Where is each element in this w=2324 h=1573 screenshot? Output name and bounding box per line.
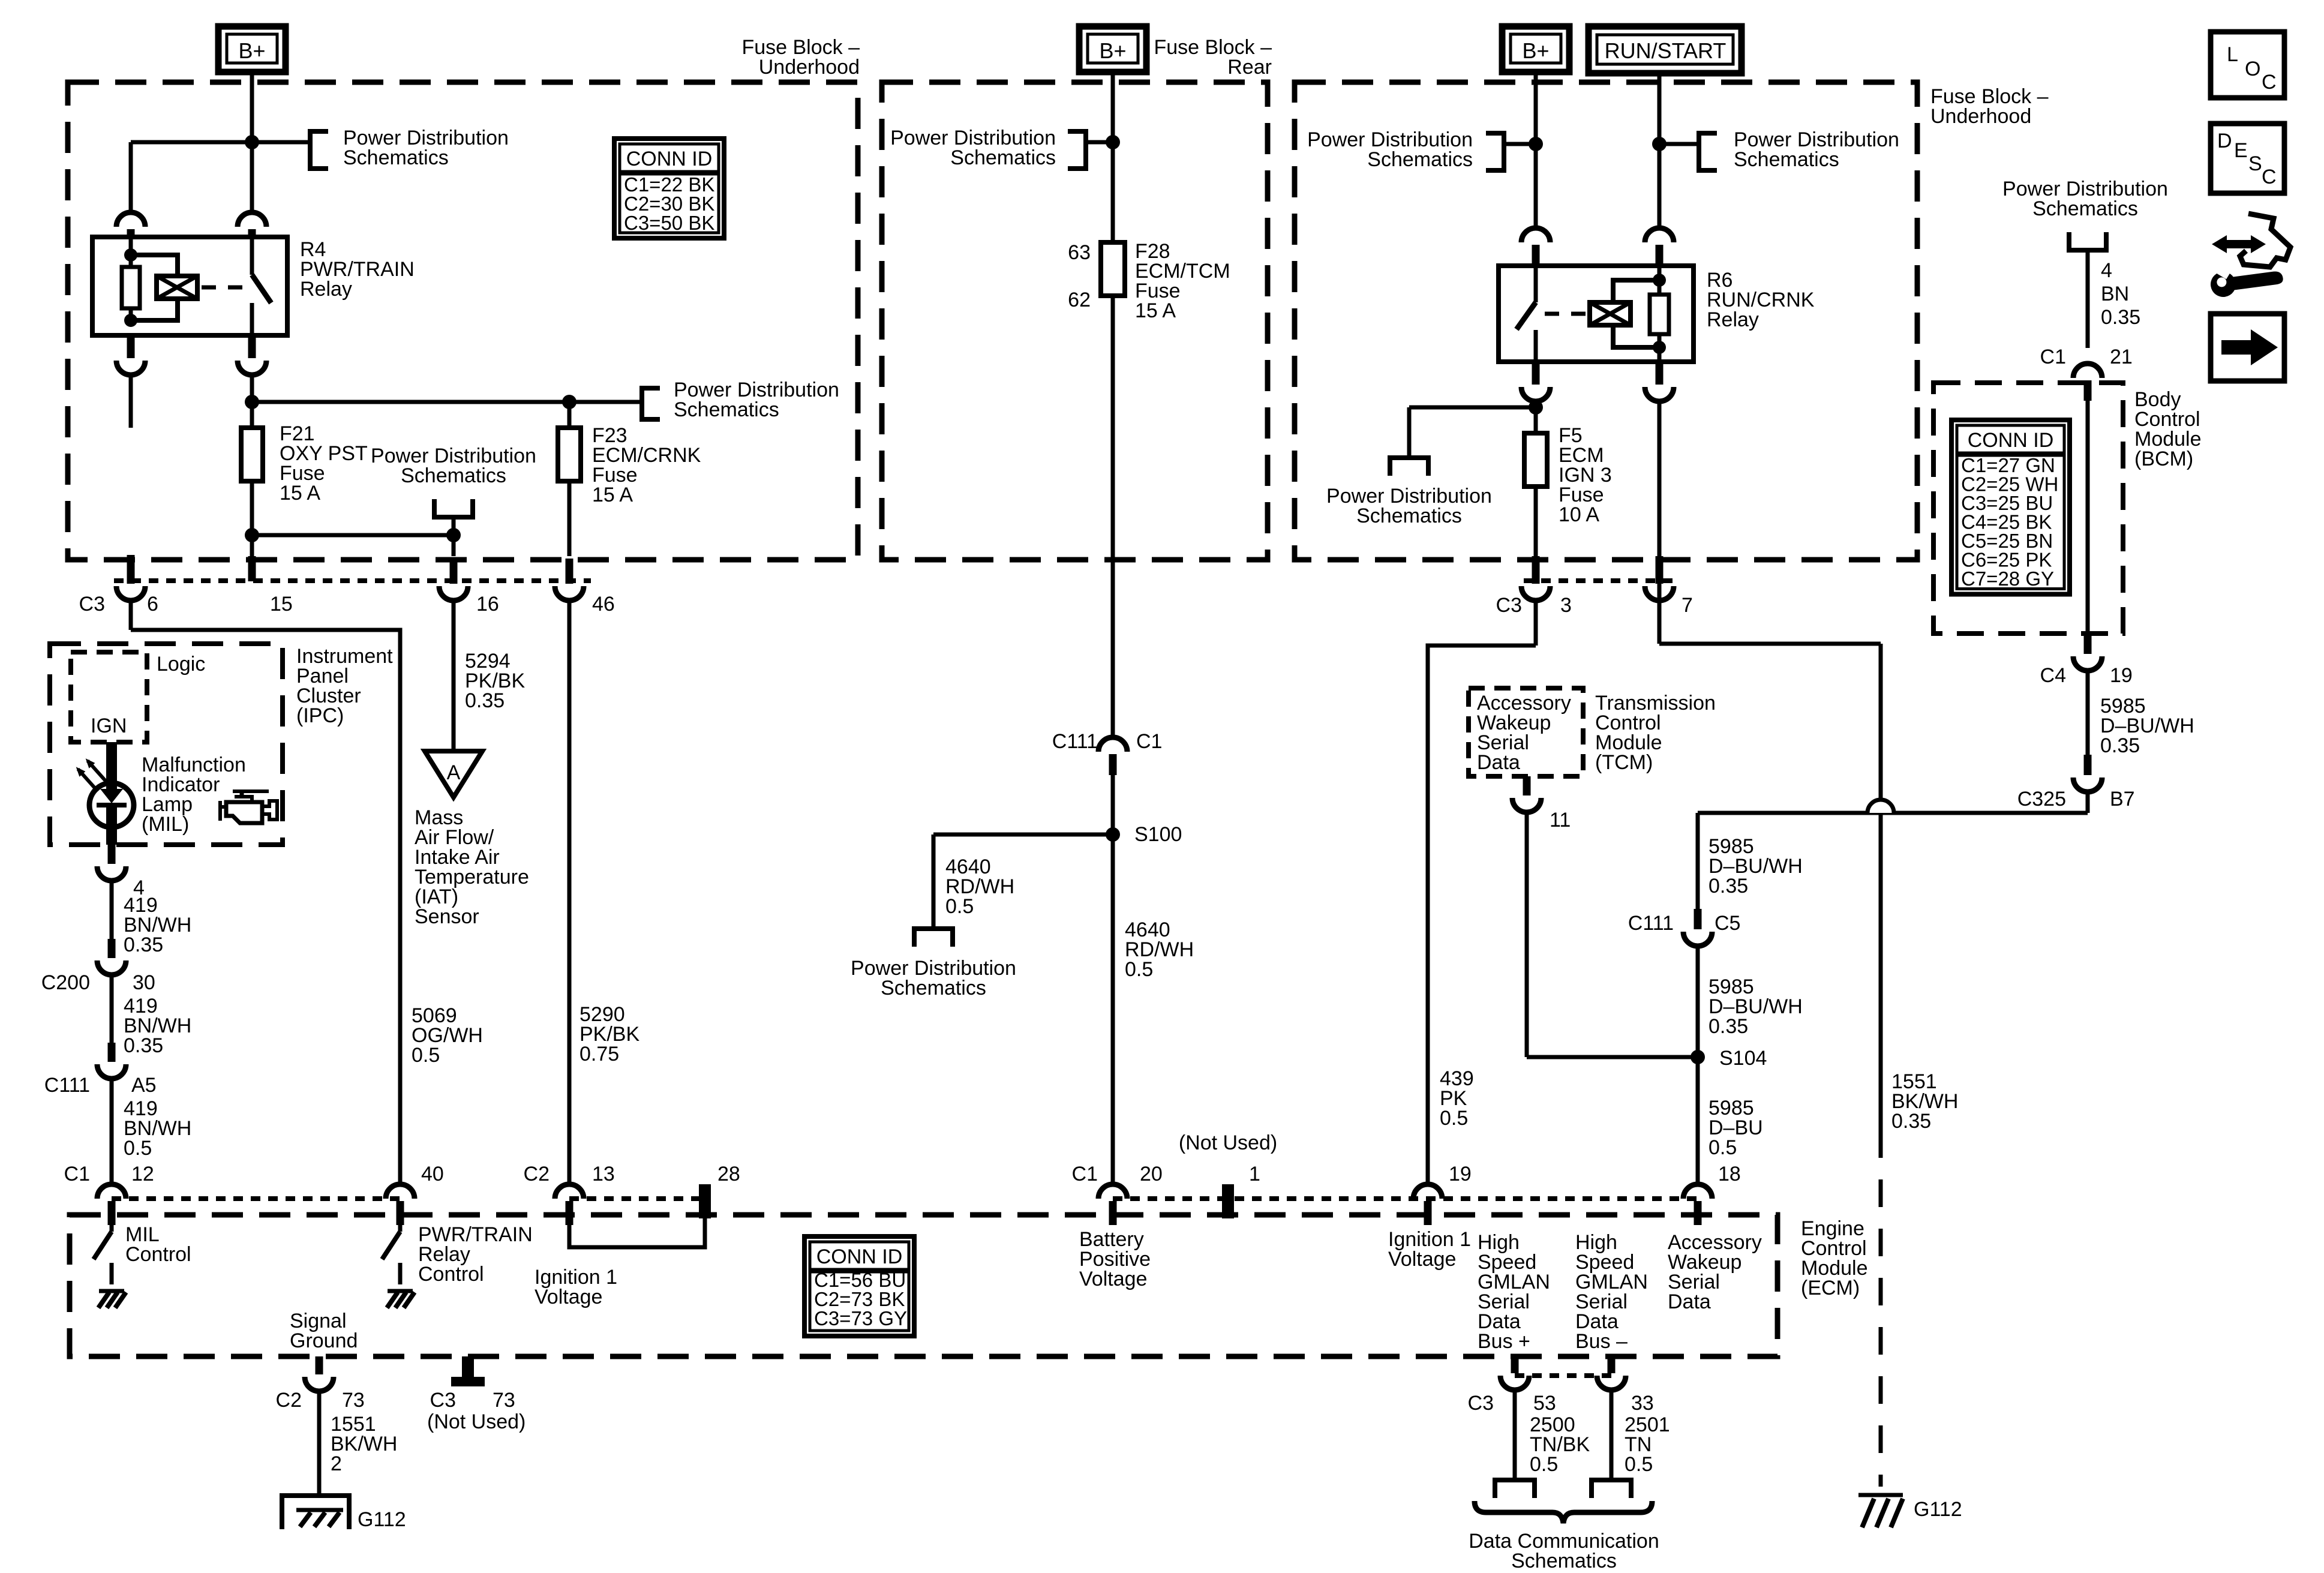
- svg-text:16: 16: [476, 593, 499, 616]
- svg-text:C325: C325: [2017, 788, 2066, 810]
- svg-text:73: 73: [342, 1389, 365, 1412]
- svg-text:11: 11: [1550, 809, 1571, 831]
- svg-text:6: 6: [147, 593, 158, 616]
- svg-text:(ECM): (ECM): [1801, 1277, 1860, 1299]
- svg-text:Bus +: Bus +: [1478, 1330, 1530, 1353]
- svg-text:C1: C1: [1136, 730, 1162, 753]
- svg-text:1: 1: [1249, 1163, 1260, 1185]
- svg-text:53: 53: [1533, 1392, 1556, 1415]
- svg-text:C1: C1: [1072, 1163, 1098, 1185]
- svg-text:B7: B7: [2110, 788, 2135, 810]
- svg-text:7: 7: [1682, 594, 1693, 617]
- svg-text:D: D: [2217, 130, 2232, 152]
- svg-text:Schematics: Schematics: [401, 464, 506, 487]
- svg-text:Data: Data: [1477, 751, 1520, 774]
- svg-text:S104: S104: [1719, 1047, 1767, 1070]
- svg-text:0.35: 0.35: [1891, 1110, 1931, 1133]
- svg-text:(MIL): (MIL): [142, 813, 189, 836]
- svg-text:B+: B+: [238, 38, 265, 63]
- svg-text:Data: Data: [1668, 1290, 1711, 1313]
- svg-text:C111: C111: [44, 1074, 90, 1097]
- svg-text:0.5: 0.5: [412, 1044, 440, 1067]
- svg-text:(TCM): (TCM): [1595, 751, 1653, 774]
- svg-text:0.5: 0.5: [1125, 958, 1153, 981]
- svg-text:G112: G112: [1914, 1498, 1962, 1521]
- svg-text:15: 15: [270, 593, 293, 616]
- svg-text:Logic: Logic: [157, 653, 205, 676]
- svg-text:0.5: 0.5: [1440, 1107, 1468, 1130]
- svg-text:62: 62: [1068, 289, 1091, 311]
- svg-text:C1: C1: [64, 1163, 90, 1185]
- svg-text:C3=73 GY: C3=73 GY: [814, 1307, 907, 1329]
- svg-text:C3: C3: [1468, 1392, 1494, 1415]
- svg-text:Schematics: Schematics: [881, 977, 986, 999]
- svg-text:C3: C3: [430, 1389, 456, 1412]
- svg-text:Underhood: Underhood: [759, 56, 860, 79]
- svg-text:0.35: 0.35: [1709, 875, 1748, 897]
- svg-text:C111: C111: [1628, 912, 1674, 935]
- svg-text:0.5: 0.5: [124, 1137, 152, 1160]
- svg-text:C3=50 BK: C3=50 BK: [624, 212, 714, 234]
- svg-text:IGN: IGN: [91, 715, 127, 737]
- svg-text:Rear: Rear: [1227, 56, 1272, 79]
- svg-text:Schematics: Schematics: [2032, 197, 2138, 220]
- svg-text:0.5: 0.5: [1530, 1453, 1558, 1476]
- svg-text:15 A: 15 A: [1135, 299, 1176, 322]
- svg-text:15 A: 15 A: [592, 484, 633, 506]
- svg-text:12: 12: [131, 1163, 154, 1185]
- svg-text:73: 73: [493, 1389, 515, 1412]
- svg-text:0.75: 0.75: [580, 1043, 619, 1065]
- svg-text:20: 20: [1140, 1163, 1163, 1185]
- svg-text:18: 18: [1718, 1163, 1741, 1185]
- svg-text:Ground: Ground: [290, 1329, 358, 1352]
- svg-text:Control: Control: [418, 1263, 484, 1286]
- svg-text:C: C: [2262, 71, 2277, 94]
- svg-text:0.35: 0.35: [465, 689, 505, 712]
- svg-text:CONN ID: CONN ID: [626, 148, 713, 170]
- svg-text:Relay: Relay: [300, 278, 352, 301]
- svg-text:63: 63: [1068, 241, 1091, 264]
- svg-text:0.5: 0.5: [1709, 1136, 1737, 1159]
- svg-text:28: 28: [717, 1163, 740, 1185]
- svg-text:B+: B+: [1099, 38, 1126, 63]
- svg-text:(Not Used): (Not Used): [1179, 1131, 1277, 1154]
- svg-text:21: 21: [2110, 346, 2133, 368]
- svg-text:Schematics: Schematics: [1511, 1550, 1617, 1572]
- svg-text:BN: BN: [2101, 283, 2129, 305]
- svg-text:0.35: 0.35: [2101, 306, 2140, 329]
- svg-text:30: 30: [133, 971, 155, 994]
- svg-text:19: 19: [1449, 1163, 1472, 1185]
- svg-text:Voltage: Voltage: [1079, 1268, 1147, 1290]
- svg-text:0.35: 0.35: [124, 933, 163, 956]
- svg-text:0.35: 0.35: [124, 1034, 163, 1057]
- svg-text:C: C: [2262, 166, 2277, 188]
- svg-text:Schematics: Schematics: [1734, 148, 1839, 171]
- svg-text:G112: G112: [358, 1508, 406, 1531]
- svg-text:4: 4: [2101, 259, 2112, 282]
- svg-text:33: 33: [1631, 1392, 1654, 1415]
- svg-text:C2: C2: [524, 1163, 550, 1185]
- svg-text:A5: A5: [131, 1074, 157, 1097]
- svg-text:S100: S100: [1134, 823, 1182, 846]
- svg-text:S: S: [2248, 152, 2262, 175]
- svg-text:19: 19: [2110, 664, 2133, 687]
- svg-text:40: 40: [421, 1163, 444, 1185]
- svg-text:3: 3: [1560, 594, 1572, 617]
- svg-text:E: E: [2234, 139, 2248, 162]
- svg-text:RUN/START: RUN/START: [1605, 38, 1727, 63]
- svg-text:Underhood: Underhood: [1930, 105, 2031, 128]
- svg-text:C5: C5: [1715, 912, 1740, 935]
- svg-text:(Not Used): (Not Used): [427, 1410, 526, 1433]
- svg-text:(IPC): (IPC): [296, 704, 344, 727]
- svg-text:0.35: 0.35: [1709, 1015, 1748, 1038]
- svg-text:C3: C3: [1496, 594, 1522, 617]
- svg-text:C200: C200: [41, 971, 90, 994]
- svg-text:C2: C2: [276, 1389, 302, 1412]
- svg-text:0.35: 0.35: [2100, 734, 2140, 757]
- svg-text:Bus –: Bus –: [1575, 1330, 1628, 1353]
- svg-text:(BCM): (BCM): [2134, 448, 2193, 470]
- svg-text:13: 13: [592, 1163, 615, 1185]
- svg-text:Schematics: Schematics: [1367, 148, 1473, 171]
- svg-text:CONN ID: CONN ID: [816, 1245, 903, 1268]
- svg-text:0.5: 0.5: [945, 895, 974, 918]
- svg-text:A: A: [447, 761, 461, 784]
- svg-text:C7=28 GY: C7=28 GY: [1961, 568, 2054, 590]
- svg-text:CONN ID: CONN ID: [1968, 429, 2054, 452]
- svg-text:C1: C1: [2040, 346, 2066, 368]
- svg-text:C3: C3: [79, 593, 105, 616]
- svg-text:Voltage: Voltage: [535, 1286, 602, 1308]
- svg-text:B+: B+: [1522, 38, 1549, 63]
- svg-text:Schematics: Schematics: [950, 146, 1056, 169]
- svg-text:Schematics: Schematics: [1356, 505, 1462, 527]
- svg-text:Sensor: Sensor: [415, 905, 479, 928]
- svg-text:Relay: Relay: [1707, 308, 1759, 331]
- svg-text:Schematics: Schematics: [343, 146, 449, 169]
- svg-text:15 A: 15 A: [280, 482, 320, 505]
- svg-text:46: 46: [592, 593, 615, 616]
- svg-text:0.5: 0.5: [1625, 1453, 1653, 1476]
- svg-text:2: 2: [331, 1452, 342, 1475]
- svg-text:Schematics: Schematics: [674, 398, 779, 421]
- svg-text:10 A: 10 A: [1559, 503, 1599, 526]
- svg-text:Control: Control: [125, 1243, 191, 1266]
- svg-text:Voltage: Voltage: [1388, 1248, 1456, 1271]
- svg-text:C111: C111: [1052, 730, 1098, 753]
- svg-text:C4: C4: [2040, 664, 2066, 687]
- svg-text:O: O: [2245, 58, 2260, 80]
- svg-text:L: L: [2227, 43, 2238, 66]
